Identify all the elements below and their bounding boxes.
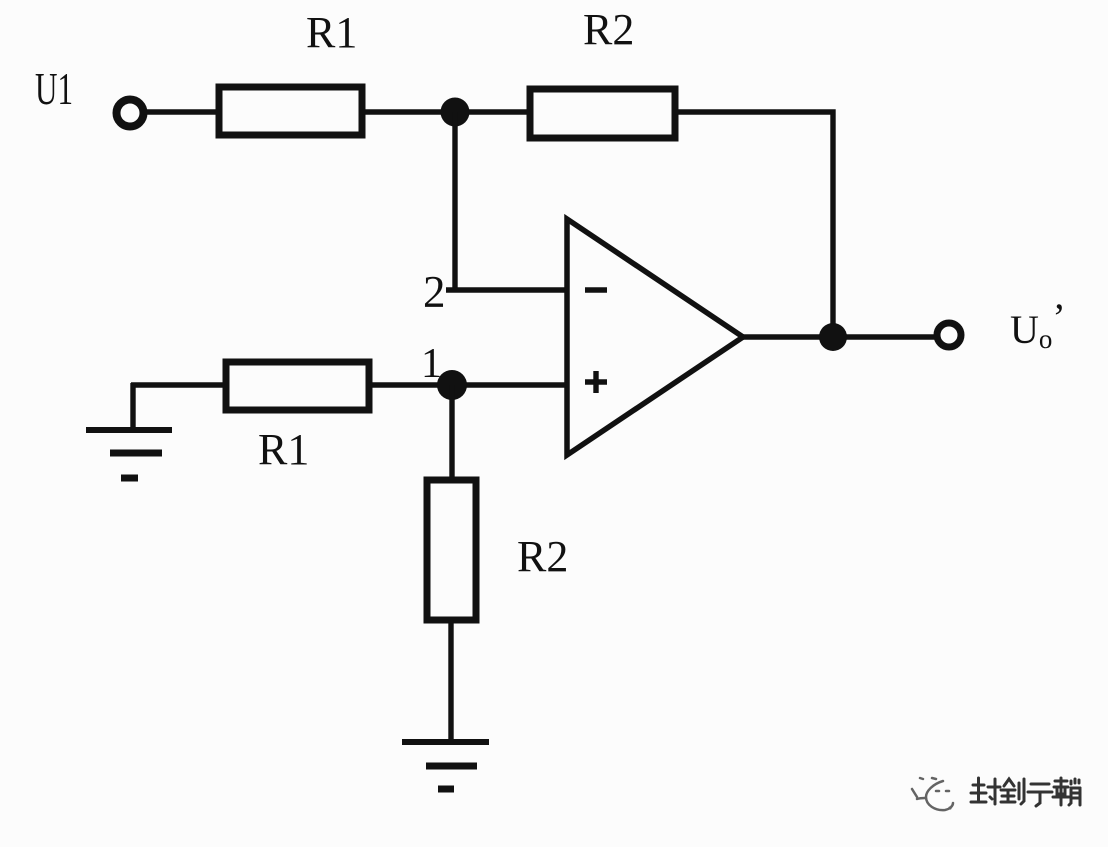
node A junction dot <box>441 98 470 127</box>
ground left top bar <box>86 427 172 433</box>
wire node A down to inverting input <box>452 112 457 290</box>
ground bottom middle bar <box>426 763 477 770</box>
resistor R1 top <box>219 87 362 135</box>
resistor R2 top <box>530 89 675 138</box>
wire ground stub vertical <box>130 383 135 431</box>
wire left stub to R1 bottom <box>131 382 226 387</box>
op-amp U1 <box>567 219 743 455</box>
ground bottom top bar <box>402 739 489 745</box>
svg-text:R1: R1 <box>258 425 309 474</box>
svg-text:2: 2 <box>423 267 446 317</box>
node 1 junction dot <box>437 370 467 400</box>
char 封 <box>971 778 1000 804</box>
terminal U1 <box>117 100 144 127</box>
svg-text:R2: R2 <box>517 532 568 581</box>
char 鞘 <box>1053 778 1080 805</box>
svg-text:U1: U1 <box>35 63 73 114</box>
svg-text:R2: R2 <box>583 5 634 54</box>
ground bottom bottom dash <box>438 786 454 793</box>
ground left middle bar <box>110 450 162 457</box>
char 剑 <box>1001 779 1024 804</box>
op-amp plus sign <box>585 379 607 384</box>
wire terminal to R1 <box>143 109 219 114</box>
wire R2 to feedback corner <box>675 112 833 337</box>
wire node 1 down to R2 vertical <box>449 385 454 480</box>
wire R1 to node A <box>362 109 530 114</box>
op-amp minus sign <box>585 287 607 292</box>
wire R2 vertical to ground <box>448 620 453 743</box>
node B output junction dot <box>819 323 847 351</box>
wire R1 bottom to node 1 and op-amp plus input <box>369 382 567 387</box>
watermark text: 封剑于鞘 drawn as strokes <box>971 778 1080 806</box>
char 于 <box>1028 784 1052 806</box>
output wire <box>743 334 936 339</box>
svg-text:R1: R1 <box>306 8 357 57</box>
watermark icon <box>912 778 953 810</box>
terminal Uo <box>937 323 961 347</box>
resistor R1 bottom <box>226 362 369 410</box>
svg-text:1: 1 <box>421 341 442 387</box>
ground left bottom dash <box>121 475 138 482</box>
resistor R2 vertical <box>427 480 476 620</box>
